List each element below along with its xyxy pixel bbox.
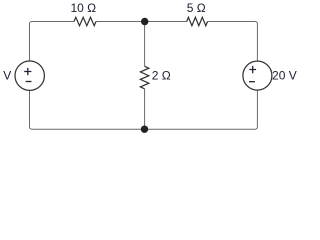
wire: middle vertical R3 bottom to node B xyxy=(144,89,146,129)
V1 plus sign xyxy=(24,68,31,75)
wire: right vertical from source 20V bottom + bottom-right corner + bottom run to node B xyxy=(145,90,258,129)
svg-text:20 V: 20 V xyxy=(272,69,297,83)
wire: top middle segment (R1 right lead to node A and on to R2 left lead) xyxy=(96,21,187,23)
node A junction dot (top middle) xyxy=(141,18,148,25)
V2 plus sign xyxy=(249,66,256,73)
wire: top-right corner + right vertical to source 20V top xyxy=(208,22,258,62)
svg-text:10 Ω: 10 Ω xyxy=(70,1,96,15)
svg-text:2 Ω: 2 Ω xyxy=(152,69,171,83)
svg-text:V: V xyxy=(3,69,11,83)
resistor R1 10 ohm (horizontal zigzag) xyxy=(74,17,96,25)
voltage source V1 circle (left) xyxy=(15,61,44,90)
V2 minus sign xyxy=(249,81,255,83)
wire: top-left corner + left vertical to source V top xyxy=(30,22,75,62)
wire: left vertical from source V bottom + bottom-left corner + bottom run to node B xyxy=(30,90,145,129)
node B junction dot (bottom middle) xyxy=(141,126,148,133)
wire: middle vertical node A to R3 top xyxy=(144,22,146,67)
V1 minus sign xyxy=(26,81,32,83)
resistor R3 2 ohm (vertical zigzag) xyxy=(140,66,148,89)
voltage source V2 circle (right, 20 V) xyxy=(243,61,272,90)
resistor R2 5 ohm (horizontal zigzag) xyxy=(187,17,208,25)
svg-text:5 Ω: 5 Ω xyxy=(187,1,206,15)
